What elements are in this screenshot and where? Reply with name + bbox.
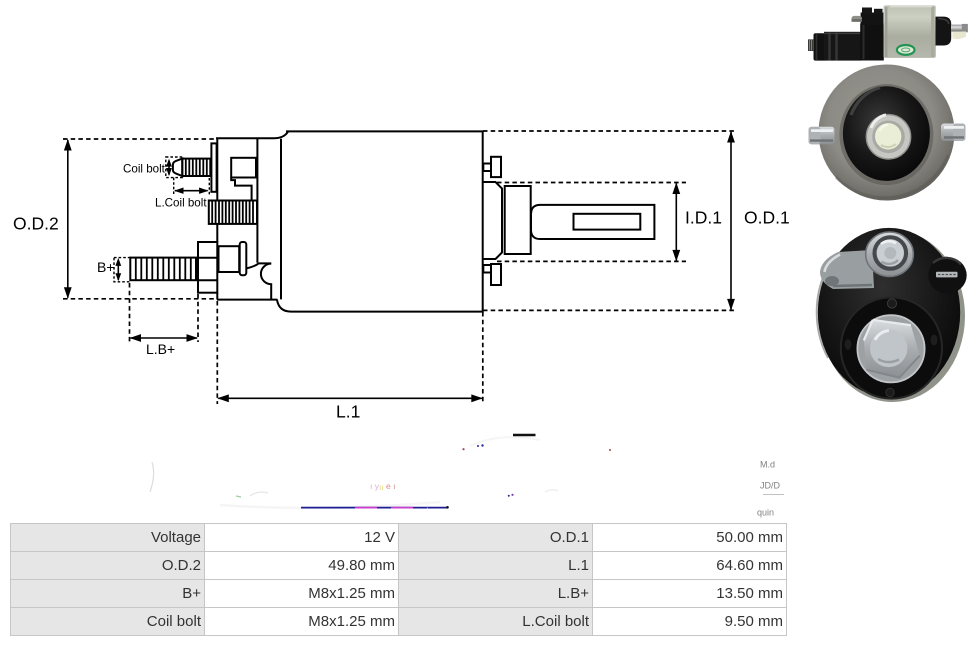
navy ghost line <box>301 507 447 509</box>
svg-text:M.d: M.d <box>760 460 775 470</box>
photo 1 solenoid side view <box>808 5 968 60</box>
steel washer ring <box>866 115 910 159</box>
lower terminal thread hatching <box>212 201 253 224</box>
O.D.1 top dashed line <box>483 130 737 132</box>
L.1 left extension <box>216 301 218 404</box>
colored text fragment <box>370 481 395 492</box>
left mount bolt <box>809 127 835 144</box>
body left edge <box>280 139 282 300</box>
L.1 right extension <box>482 312 484 404</box>
solenoid can <box>884 5 936 58</box>
Coil bolt diameter arrow <box>168 161 170 175</box>
ghost artifacts <box>150 435 784 518</box>
B+ hex nut <box>198 242 217 293</box>
svg-text:L.1: L.1 <box>336 402 360 422</box>
coil bolt stud (bullet tip + threads) <box>173 159 182 176</box>
svg-text:I.D.1: I.D.1 <box>685 207 722 227</box>
svg-text:ıı: ıı <box>379 482 384 492</box>
faint right-side text remnants <box>757 460 781 518</box>
O.D.2 vertical arrow <box>67 140 69 298</box>
L.1 horizontal arrow <box>218 397 482 399</box>
svg-text:O.D.2: O.D.2 <box>13 214 59 234</box>
shaft slot <box>574 214 641 230</box>
plunger end cap <box>814 33 827 60</box>
L.Coil bolt right extension <box>208 178 210 196</box>
top terminal washer plate <box>866 232 914 276</box>
I.D.1 top dashed line <box>497 182 686 184</box>
spade connector <box>928 257 966 293</box>
spec table <box>10 523 787 636</box>
plunger body <box>824 32 861 61</box>
fork bracket upper block <box>861 13 884 26</box>
coil bolt thread hatching <box>186 159 207 176</box>
rubber boot <box>843 86 930 181</box>
B+ thread hatching <box>136 258 191 281</box>
end cap bearing <box>505 186 531 254</box>
svg-text:quin: quin <box>757 508 774 518</box>
plunger threaded tip <box>808 39 816 51</box>
boot concave arc <box>261 264 271 300</box>
O.D.1 vertical arrow <box>730 132 732 309</box>
ivory plunger center <box>875 123 901 149</box>
metal can behind <box>820 230 965 402</box>
plunger shaft <box>531 205 654 239</box>
photo 2 front view <box>809 65 966 201</box>
O.D.2 top dashed line <box>63 138 216 140</box>
L.Coil bolt horizontal arrow <box>175 190 208 192</box>
O.D.2 bottom dashed line <box>63 298 217 300</box>
top hex bolt head <box>875 237 907 269</box>
svg-text:L.Coil bolt: L.Coil bolt <box>155 197 207 210</box>
coil bolt tip dashed box <box>166 157 183 178</box>
ghost dots <box>477 445 479 447</box>
bottom bolt dark ring <box>841 297 942 398</box>
svg-text:L.B+: L.B+ <box>146 341 175 357</box>
photo 3 rear view <box>817 228 967 402</box>
technical drawing of solenoid <box>13 131 790 422</box>
L.B+ horizontal arrow <box>131 337 198 339</box>
bottom terminal tab large <box>491 264 501 285</box>
connector stripe <box>936 272 958 278</box>
I.D.1 bottom dashed line <box>497 260 686 262</box>
faint watermark smudges <box>150 437 558 508</box>
dashed extension lines <box>63 131 737 404</box>
B+ washer <box>240 242 247 275</box>
metal strap arm <box>820 250 874 289</box>
L.B+ left extension <box>129 283 131 342</box>
bottom bolt washer <box>857 315 924 382</box>
notch in bracket <box>231 158 256 178</box>
fork bracket lower <box>860 24 884 61</box>
end cap boss (chamfered) <box>484 182 503 259</box>
cream insulator <box>953 32 967 40</box>
metal pin <box>951 25 968 32</box>
lower terminal threaded block <box>209 201 257 224</box>
B+ threaded stud <box>130 258 196 281</box>
rear housing body <box>818 228 960 397</box>
black dash <box>513 434 536 436</box>
bottom terminal tab small <box>483 265 491 273</box>
notch step outline <box>231 178 251 201</box>
B+ bushing <box>219 246 240 272</box>
O.D.1 bottom dashed line <box>483 309 737 311</box>
bolt end circle <box>870 330 907 367</box>
svg-text:JD/D: JD/D <box>760 481 781 491</box>
right end cap <box>936 17 952 46</box>
mounting flange disc <box>819 65 955 201</box>
green sticker <box>897 45 915 55</box>
coil bolt washer plate <box>211 143 216 191</box>
body outline <box>277 131 483 311</box>
I.D.1 vertical arrow <box>675 184 677 261</box>
svg-text:O.D.1: O.D.1 <box>744 207 790 227</box>
top terminal tab large <box>491 157 501 177</box>
bracket column right edge <box>256 138 258 263</box>
bottom hex head <box>864 320 920 378</box>
B+ diameter arrow <box>117 260 119 280</box>
bracket bottom line <box>217 299 278 301</box>
right mount bolt <box>941 124 966 141</box>
L.Coil bolt left extension <box>173 178 175 196</box>
bracket top line with fillet to body top <box>216 132 288 139</box>
rubber boot shadow <box>839 84 933 185</box>
top terminal tab small <box>483 164 491 172</box>
fork pin <box>852 16 863 22</box>
svg-text:B+: B+ <box>97 259 115 275</box>
svg-text:Coil bolt: Coil bolt <box>123 163 166 176</box>
svg-text:e ı: e ı <box>386 481 395 491</box>
dimension arrows <box>68 132 731 398</box>
bracket column left edge <box>216 138 218 299</box>
arrowheads <box>64 139 72 151</box>
B+ tip dashed box <box>114 258 130 282</box>
ring detail marks <box>845 339 852 350</box>
boot contour curve <box>246 263 271 268</box>
L.B+ right extension <box>197 294 199 342</box>
